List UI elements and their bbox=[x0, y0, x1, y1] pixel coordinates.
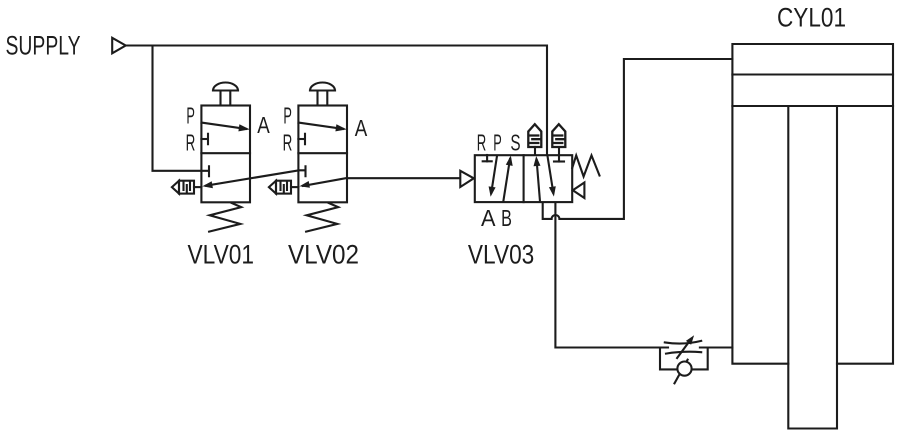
svg-text:P: P bbox=[186, 103, 195, 129]
svg-text:VLV02: VLV02 bbox=[288, 240, 359, 270]
svg-text:A: A bbox=[355, 115, 368, 141]
svg-text:P: P bbox=[493, 129, 502, 155]
svg-text:A: A bbox=[481, 205, 496, 231]
svg-text:A: A bbox=[257, 112, 270, 138]
svg-text:SUPPLY: SUPPLY bbox=[6, 31, 81, 61]
svg-text:S: S bbox=[510, 129, 520, 155]
svg-text:P: P bbox=[283, 103, 292, 129]
svg-text:CYL01: CYL01 bbox=[777, 3, 846, 33]
svg-text:R: R bbox=[283, 130, 293, 156]
svg-text:B: B bbox=[501, 205, 512, 231]
svg-text:R: R bbox=[477, 129, 487, 155]
svg-text:VLV01: VLV01 bbox=[188, 240, 255, 270]
svg-text:VLV03: VLV03 bbox=[468, 240, 534, 270]
svg-text:R: R bbox=[186, 130, 196, 156]
